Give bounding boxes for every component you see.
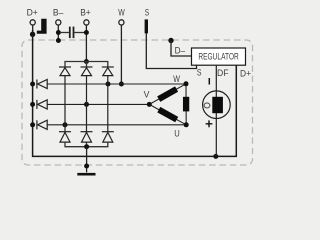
wire phase 3 vertical [107,76,109,132]
stator delta winding V-W [149,84,186,105]
power diode top 2 [81,67,93,76]
node exciter diode 3 output [30,122,35,127]
wire B+ down to rectifier bus [85,25,87,61]
wire capacitor right lead [74,32,84,34]
wire capacitor left lead [61,32,69,34]
node exciter diode 1 output [30,82,35,87]
node B- capacitor tap [56,30,61,35]
svg-text:S: S [197,68,202,78]
svg-text:D+: D+ [240,68,251,78]
ground bar [77,173,95,176]
wire phase 1 vertical [64,76,66,132]
wire B- rectifier bus [65,142,108,147]
svg-text:D+: D+ [27,7,38,17]
node D- at housing [168,38,173,43]
node stator W vertex [184,81,189,86]
terminal B+ [84,20,89,25]
exciter diode D2 (to D+) [37,100,47,109]
node exciter diode 2 output [30,102,35,107]
field winding [212,97,223,113]
svg-text:B–: B– [53,7,64,17]
node B- bus to ground [84,144,89,149]
connector blade D+ [37,19,47,34]
wire exciter line 3 (phase U to D+) [47,124,186,126]
wire W terminal down to stator phase [120,25,122,84]
minus polarity mark [208,78,210,85]
wire B+ rectifier bus [65,62,108,68]
wire exciter line 2 (phase V to D+) [47,103,149,105]
node B+ capacitor tap [84,30,89,35]
power diode top 1 [59,67,71,76]
connector blade S [145,19,148,33]
svg-text:S: S [145,7,149,17]
node B+ bus junction [84,59,89,64]
exciter diode D1 (to D+) [37,79,47,88]
power diode bottom 2 [81,132,93,142]
svg-text:DF: DF [217,68,229,78]
wire S to regulator [146,33,196,68]
exciter diode D3 (to D+) [37,120,47,129]
node B- housing connection [56,38,61,43]
regulator U1 [192,48,246,65]
node phase1 tap [63,122,68,127]
svg-text:W: W [173,74,180,84]
power diode top 3 [102,67,114,76]
capacitor suppression plates [69,27,71,38]
wire D+ terminal to junction [32,25,34,32]
wire DF to field winding [215,65,217,156]
power diode bottom 1 [59,132,71,142]
node phase3 tap [106,82,111,87]
power diode bottom 3 [102,132,114,142]
terminal D+ [30,20,35,25]
svg-text:REGULATOR: REGULATOR [198,52,238,63]
svg-text:U: U [174,129,180,139]
node stator V vertex [147,102,152,107]
wire ground lead [86,147,88,173]
alternator housing (dashed) [22,40,253,165]
svg-text:B+: B+ [80,7,91,17]
node phase2 tap [84,102,89,107]
wire D- to regulator [171,41,192,57]
svg-text:W: W [118,7,125,17]
node ground at housing [84,164,89,169]
brush [204,103,210,108]
node stator U vertex [184,122,189,127]
svg-text:V: V [144,90,150,100]
wire exciter line 1 (phase W to D+) [47,83,186,85]
svg-text:D–: D– [175,45,186,55]
node W phase tap [119,82,124,87]
wire B- down to housing [57,25,59,40]
stator delta winding W-U [185,84,187,125]
rotor (slip ring) R1 [203,91,231,119]
terminal B- [56,20,61,25]
wire D+ rail (left drop, bottom bus, right riser to regulator) [33,30,237,156]
wire phase 2 vertical [86,76,88,132]
terminal W [119,20,124,25]
node field winding to D+ rail [213,154,218,159]
node D+ junction [30,32,35,37]
plus polarity mark [206,120,213,127]
stator delta winding V-U [149,104,186,124]
